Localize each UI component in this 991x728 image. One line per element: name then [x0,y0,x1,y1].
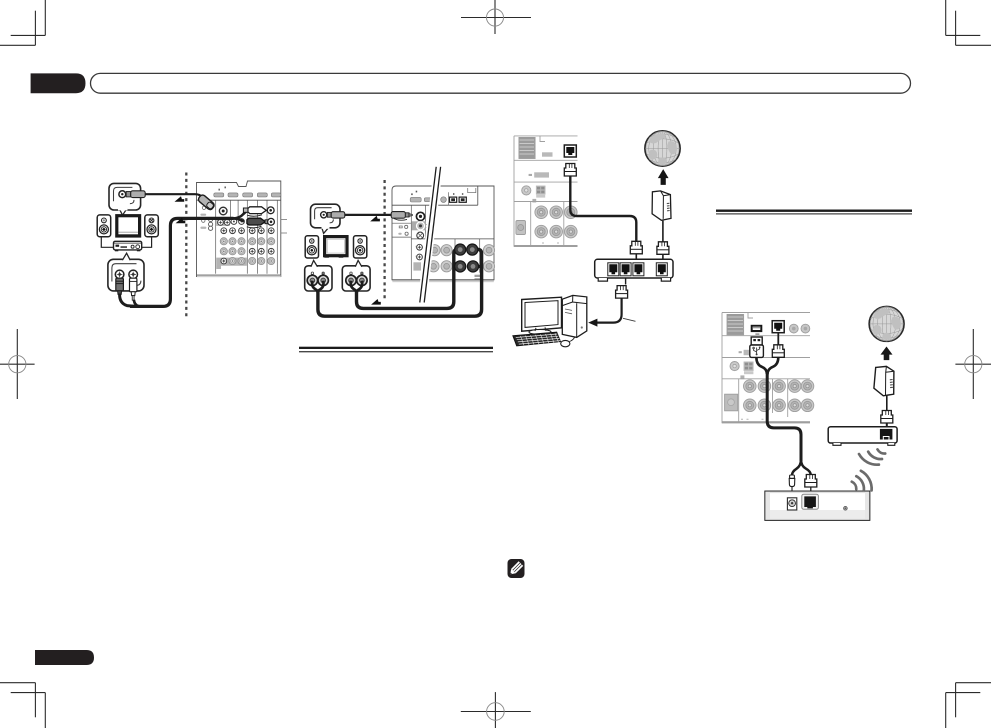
player/receiver unit [114,241,142,251]
crop mark top-left [0,0,45,45]
speaker wires to player [101,237,113,248]
small sub panel left [392,222,411,224]
optical ports [450,193,467,202]
tick lines to right edge [281,218,287,220]
stub into row2 right terminal [476,265,482,268]
receiver rear panel (gray line art) [722,313,814,424]
speaker terminals: light row2 [428,261,495,272]
fork to two plugs [792,460,801,476]
rca plug dark (left) [116,278,124,294]
tiny screws above ports [219,189,220,191]
panel divider under hdmi [197,199,281,201]
black rca plug into panel [247,218,269,228]
speaker terminals: light row1 [429,245,495,256]
section rule right column [716,210,912,215]
binding posts [307,275,328,285]
inner plate with broken rounded corners [114,187,133,201]
top section box [392,204,478,206]
arrow plugged down into router port [884,431,891,437]
heatsink dark block [519,137,536,159]
arrowhead top [370,216,380,222]
Y split to two rca plugs on panel [233,210,248,218]
left column of jacks [410,205,412,280]
LAN port on panel [772,321,784,333]
left column small parts [200,206,212,231]
phones circle [522,186,531,195]
vertical dividers [216,200,278,274]
TV [323,235,349,258]
small marks [739,351,742,353]
up arrow to internet [881,347,893,361]
section divider [514,159,578,161]
note icon (pencil in dark rounded square) [508,559,525,578]
plug at panel end [391,212,412,221]
jacks row D [221,258,227,264]
cable modem to router [662,221,664,242]
mini plug into jack [126,192,131,197]
computer [513,295,587,346]
wifi arcs router (pointing SW) [859,449,885,464]
main divider [722,378,810,380]
section divider [722,335,810,337]
heatsink dark block [727,314,744,335]
router [828,427,897,446]
two jacks [115,270,124,279]
bottom [722,421,810,423]
speaker terminals callout left [305,260,332,293]
section rule middle column [299,347,493,353]
rca plug white (right) [130,278,137,300]
big rca jack top-left of grid [219,207,227,215]
receiver rear panel (gray line art) [514,136,578,247]
up arrow to internet [659,170,668,184]
keyboard [513,332,561,346]
left square port [725,394,738,411]
globe (internet) [645,131,680,166]
stereo mini cable [345,214,392,216]
bottom [514,245,578,247]
callout: analog audio jacks (bottom) [108,253,144,291]
control block [744,362,754,371]
modem [652,191,671,220]
dashed separator line [383,180,385,301]
speaker terminal section [411,238,494,240]
header black tab [31,73,86,93]
bottom edge + shadow [392,280,493,282]
jack [119,191,126,198]
crop mark bottom-left [0,683,45,728]
registration mark right-edge [955,329,991,399]
lan port [802,494,819,509]
jacks row A [221,228,227,234]
callout: TV audio output jacks (top) [109,183,145,215]
rj45 plug to converter [805,475,817,488]
dashed separator line [185,173,187,319]
big woofer circles [744,380,757,393]
wireless converter box [765,491,870,520]
TV [115,214,141,238]
registration mark left-edge [0,329,35,399]
tower [562,295,587,337]
USB port on panel [751,325,763,332]
phones circle [730,362,739,371]
arrowhead bottom [371,299,381,305]
panel bottom shadow [197,275,281,277]
white rca plug into panel [243,207,266,216]
power jack [787,498,796,510]
header outline bar [91,73,911,93]
hdmi ports [410,197,421,202]
right speaker [145,215,159,237]
gray band bottom [216,258,247,269]
left speaker [97,215,111,237]
gray box bottom of left column [413,262,421,270]
gray circle jack [441,197,447,203]
receiver rear panel (middle diagram) [392,186,495,282]
receiver rear panel (left diagram) [197,181,288,277]
left square port [516,221,526,235]
arrowhead 1 [175,196,185,202]
right speaker [354,236,367,258]
gray highlight box row2 [216,219,230,226]
globe (internet) [869,306,904,341]
LAN port on panel [564,145,576,157]
dark terminals row2 [455,261,479,272]
monitor [522,297,562,331]
HDMI plug on panel (angled) [197,194,215,211]
cable router to computer [625,278,627,285]
HDMI cable to panel [145,194,202,197]
callout: audio output mini jack [311,204,345,233]
modem [874,366,894,395]
big woofer circles [535,206,548,219]
registration mark top-center [461,0,531,34]
top-right notch [468,188,476,193]
left speaker [305,236,318,258]
vent rect [542,152,553,156]
diagonal cable crossing panel [420,167,441,303]
cable modem to router [886,396,888,411]
crop mark bottom-right [946,683,991,728]
crop mark top-right [946,0,991,45]
speaker cable from left callout (outer run) [318,249,482,316]
ethernet cable from LAN to router [564,164,642,263]
arrowhead 2 [176,218,186,224]
screw [844,506,848,510]
router [595,259,673,281]
panel jacks receiving plugs [267,207,274,214]
page number black tab bottom-left [35,650,94,665]
gray jacks right [789,324,798,333]
mouse [561,340,570,346]
speaker cable from right callout (inner run) [357,249,458,308]
control block [536,186,546,195]
jacks row B gray [220,238,227,245]
left edge [513,136,515,247]
thick analog cable from plugs to panel [120,294,134,307]
SPEAKERS labels [475,275,482,277]
dark terminals row1 [455,244,478,255]
wires looping out of posts [312,281,318,293]
jacks row C [220,248,227,255]
wifi arcs converter (pointing NE) [852,471,872,491]
speaker terminals callout right [342,260,370,293]
merged cable down [756,357,767,374]
two more jacks below [417,244,423,250]
stub into row2 left terminal [454,265,460,268]
ethernet plug from LAN [777,333,779,346]
main divider [514,201,578,203]
USB plug [750,337,764,357]
hdmi port row [214,193,281,197]
small power plug [789,475,795,497]
registration mark bottom-center [461,692,531,728]
PL mark + gray rect [529,174,532,176]
